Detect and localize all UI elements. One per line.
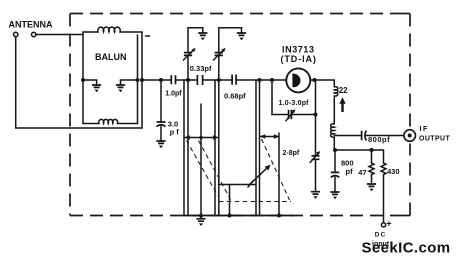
- node balun left: [81, 78, 85, 82]
- chassis bus solid segment: [182, 215, 293, 217]
- variable capacitor CV 1.0-30pf: [289, 110, 292, 119]
- resonator line 3a: [255, 80, 257, 216]
- IF output connector: [404, 130, 416, 142]
- wire varcap1 lower lead: [187, 55, 189, 80]
- wire 47 upper lead: [371, 150, 373, 163]
- inductor L 22: [334, 87, 338, 96]
- resonator line 1a: [183, 80, 185, 216]
- ground 2-8pf: [311, 192, 320, 199]
- wire main line segment 4: [236, 79, 286, 81]
- ground 3.0pf: [156, 141, 165, 148]
- wire bias node line: [334, 149, 383, 151]
- antenna terminal bottom: [32, 32, 36, 36]
- svg-text:pf: pf: [346, 167, 354, 176]
- wire to IF connector: [366, 135, 404, 137]
- node chassis rod3: [277, 214, 281, 218]
- dashed enclosure right edge upper: [409, 14, 411, 128]
- wire choke to node: [333, 137, 335, 150]
- svg-text:(TD-IA): (TD-IA): [281, 54, 317, 64]
- svg-text:OUTPUT: OUTPUT: [419, 136, 450, 143]
- ground stub balun left: [83, 80, 97, 85]
- wire main line segment 2: [176, 79, 198, 81]
- tuning gang dashed slant 1: [187, 141, 219, 197]
- capacitor C 800pf shunt: [331, 172, 339, 177]
- wire diode to corner: [310, 79, 334, 81]
- tuning rod 3: [278, 133, 280, 216]
- node rod1 arrow crossing: [199, 136, 203, 140]
- capacitor C 800pf series: [362, 131, 367, 141]
- svg-text:47: 47: [358, 168, 366, 177]
- inductor RF choke: [331, 124, 335, 137]
- svg-text:2-8pf: 2-8pf: [283, 150, 300, 157]
- wire main line segment 3: [203, 79, 233, 81]
- node varcap1 tap: [186, 78, 190, 82]
- svg-text:0.33pf: 0.33pf: [190, 64, 212, 73]
- wire 800pf shunt lower lead: [334, 177, 336, 192]
- wire antenna feed to balun: [36, 34, 83, 36]
- node balun outer right: [140, 78, 144, 82]
- svg-text:DC: DC: [375, 232, 386, 239]
- ground stub balun right: [121, 80, 138, 85]
- wire diode shunt branch right: [291, 114, 315, 116]
- arrow varcap 1.0-30pf: [286, 109, 296, 121]
- tunnel diode D1 circle: [286, 68, 310, 92]
- svg-text:800pf: 800pf: [368, 135, 390, 144]
- tuning gang shaft: [219, 184, 256, 186]
- node 3.0pf tap: [159, 78, 163, 82]
- wire 800pf shunt upper lead: [334, 150, 336, 172]
- ground varcap1: [198, 33, 207, 40]
- double arrow resonator 3: [260, 134, 280, 138]
- svg-text:SeekIC.com: SeekIC.com: [362, 239, 451, 256]
- wire main line segment 1: [142, 79, 171, 81]
- wire between coils: [333, 96, 335, 124]
- wire varcap2 upper lead: [219, 28, 242, 53]
- wire diode shunt left leg: [271, 80, 273, 115]
- wire IF tap: [334, 135, 361, 137]
- ground varcap2: [237, 33, 246, 40]
- ground 47: [367, 184, 376, 191]
- node diode right: [313, 78, 317, 82]
- svg-text:+: +: [386, 219, 391, 229]
- svg-text:0.68pf: 0.68pf: [224, 91, 246, 100]
- capacitor C 0.68pf: [232, 75, 236, 85]
- wire varcap1 upper lead: [188, 28, 203, 53]
- svg-text:1.0pf: 1.0pf: [165, 91, 182, 98]
- wire 3.0pf branch upper: [160, 80, 162, 122]
- balun bottom winding L2: [83, 119, 138, 123]
- node 47 tap: [370, 148, 374, 152]
- resistor R 430: [381, 163, 386, 175]
- node chassis rod2: [228, 214, 232, 218]
- dashed enclosure top edge: [70, 13, 410, 15]
- tunnel diode D1 anode: [295, 74, 301, 87]
- wire diode shunt right leg: [315, 80, 317, 156]
- capacitor C 0.33pf: [197, 75, 202, 85]
- svg-text:22: 22: [339, 86, 348, 95]
- variable capacitor CV 2-8pf: [312, 156, 320, 159]
- wire 3.0pf branch lower: [160, 126, 162, 141]
- capacitor C 3.0pf: [157, 122, 166, 127]
- node chassis rod1: [199, 214, 203, 218]
- wire varcap2 lower lead: [218, 55, 220, 80]
- node shunt branch right: [314, 113, 318, 117]
- enclosure corner tick bottom-right: [403, 215, 410, 217]
- balun outer right edge: [141, 32, 143, 128]
- svg-text:IF: IF: [420, 126, 429, 133]
- balun outline left edge: [82, 32, 84, 124]
- double arrow resonator 1-2: [184, 135, 218, 139]
- resistor R 47: [369, 163, 374, 175]
- wire corner down to choke: [333, 80, 335, 87]
- resonator line 1b: [187, 80, 189, 216]
- svg-text:ANTENNA: ANTENNA: [9, 20, 53, 30]
- dashed enclosure bottom edge: [70, 215, 410, 217]
- tuning gang dashed slant 3: [262, 139, 290, 200]
- node resonator3 tap: [258, 78, 262, 82]
- wire 2-8pf lower lead: [315, 159, 317, 191]
- variable capacitor CV1: [184, 53, 192, 56]
- node balun inner right: [136, 78, 140, 82]
- ground chassis: [196, 216, 205, 227]
- enclosure corner tick top-right: [403, 13, 410, 15]
- tuning gang dashed slant 2: [199, 141, 231, 200]
- ground balun right: [116, 85, 125, 92]
- wire 430 to DC terminal: [383, 175, 385, 223]
- svg-text:430: 430: [387, 167, 400, 176]
- balun inner right edge: [137, 35, 139, 124]
- node diode left: [270, 78, 274, 82]
- node varcap2 tap: [217, 78, 221, 82]
- tuning drive tick: [248, 181, 254, 188]
- svg-text:IN3713: IN3713: [282, 45, 315, 55]
- tunnel diode D1 cathode bar: [292, 74, 295, 88]
- wire antenna return left: [16, 37, 142, 129]
- balun phasing mark: [146, 35, 150, 37]
- arrow varcap1: [183, 48, 195, 60]
- arrow varcap 2-8pf: [310, 151, 320, 162]
- dashed enclosure left edge: [69, 14, 71, 216]
- node bias left: [333, 148, 337, 152]
- tuning rod 2: [229, 185, 231, 216]
- wire 430 upper lead: [383, 150, 385, 163]
- variable capacitor CV2: [215, 53, 223, 56]
- tuning drive arrow: [250, 165, 271, 185]
- arrow varcap2: [214, 48, 226, 60]
- DC terminal: [381, 223, 385, 227]
- svg-text:1.0-3.0pf: 1.0-3.0pf: [279, 100, 310, 107]
- tuning gang dashed bar: [219, 201, 291, 203]
- antenna terminal top: [14, 32, 18, 36]
- ground 800pf shunt: [330, 192, 339, 199]
- wire 47 lower lead: [371, 175, 373, 184]
- tuning rod 1: [200, 104, 202, 216]
- dashed enclosure right edge lower: [409, 144, 411, 216]
- resonator line 3b: [259, 80, 261, 216]
- ground balun left: [92, 85, 101, 92]
- resonator line 2a: [214, 80, 216, 216]
- tuning slug arrow 22: [339, 97, 345, 112]
- resonator line 2b: [218, 80, 220, 216]
- balun top winding L1: [83, 27, 142, 32]
- wire diode shunt branch left: [272, 114, 289, 116]
- svg-text:p f: p f: [170, 127, 180, 136]
- svg-text:BALUN: BALUN: [95, 52, 127, 62]
- capacitor C 1.0pf: [171, 75, 175, 84]
